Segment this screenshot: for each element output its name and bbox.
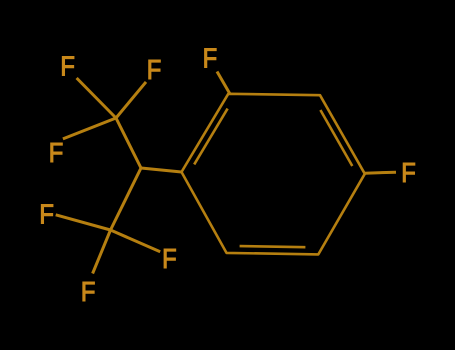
- bond ring C2 to ortho F: [217, 72, 230, 95]
- wire: ipso bond ring C1 to central carbon: [141, 168, 182, 172]
- bond C(bottom CF3)-F e: [111, 230, 161, 252]
- bond ring C4 to para F: [365, 172, 396, 173]
- double bond inner line C1=C2: [194, 109, 227, 165]
- bond C(top CF3)-F c: [63, 118, 116, 139]
- bond C(top CF3)-F a: [77, 78, 116, 118]
- double bond inner line C5=C6: [240, 246, 306, 247]
- bond C(top CF3)-F b: [116, 82, 146, 118]
- svg-text:F: F: [39, 198, 54, 230]
- svg-text:F: F: [60, 49, 75, 81]
- svg-text:F: F: [49, 136, 64, 168]
- svg-text:F: F: [81, 275, 96, 307]
- wire: central carbon to top CF3 carbon: [116, 118, 141, 168]
- wire: central carbon to bottom CF3 carbon: [111, 168, 142, 230]
- benzene ring C1..C6: [182, 94, 365, 255]
- svg-text:F: F: [401, 156, 416, 188]
- bond C(bottom CF3)-F d: [56, 215, 111, 230]
- svg-text:F: F: [203, 42, 218, 74]
- double bond inner line C3=C4: [320, 110, 352, 166]
- svg-text:F: F: [147, 53, 162, 85]
- bond C(bottom CF3)-F f: [93, 230, 111, 274]
- svg-text:F: F: [162, 242, 177, 274]
